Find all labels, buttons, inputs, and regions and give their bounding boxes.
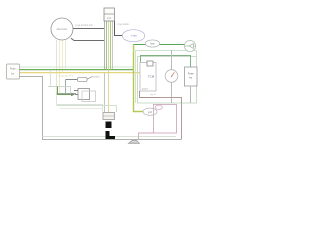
clip ground lug (129, 141, 140, 144)
svg-text:TCM: TCM (148, 75, 155, 79)
svg-text:sig rtn: sig rtn (150, 93, 157, 96)
svg-text:Fuse: Fuse (188, 71, 194, 75)
wire: pale drop x50 (50, 70, 52, 87)
connector C1 (104, 8, 114, 21)
wire: pale green y105 run (57, 106, 117, 113)
svg-text:fuse: fuse (150, 43, 155, 46)
svg-text:2 ga cable: 2 ga cable (117, 22, 130, 26)
svg-text:alternator: alternator (57, 27, 68, 31)
wire: alternator vertical leads down (57, 40, 103, 112)
wire: right riser x181 (160, 98, 182, 140)
svg-text:+ batt: + batt (130, 35, 136, 38)
wire: alternator output top to ribbon (73, 28, 105, 30)
svg-text:gnd st: gnd st (142, 88, 148, 91)
switch S1 (66, 76, 101, 82)
svg-text:10 ga ign feed: 10 ga ign feed (58, 75, 74, 78)
alternator A1 (51, 18, 73, 40)
wire: pale green y50 to right edge (133, 51, 197, 104)
svg-text:4 ga fusible link: 4 ga fusible link (75, 23, 94, 27)
wire: alternator output lower to ribbon (71, 38, 104, 40)
pink sense loop (139, 105, 177, 140)
fuse box FB1 (185, 67, 198, 86)
wire: green TCM top feed across to fuse box (141, 56, 191, 68)
relay K1 (74, 89, 96, 102)
wire: yellow bus y72.5 panel to TCM (19, 72, 140, 74)
gauge M1 (165, 70, 178, 83)
wire: switch drop (65, 80, 67, 94)
lamp L1 (184, 40, 195, 51)
wire: green arrow feed to relay (58, 87, 76, 97)
svg-text:cn1: cn1 (107, 17, 112, 20)
wire: pale companion vertical x135 (135, 50, 137, 103)
wire: yellow-green vertical x133 down to gnd ellipse (134, 44, 144, 112)
wire: pale y86 link (48, 87, 71, 94)
wire: fuse box bottom stub (190, 86, 192, 103)
wire: panel ground run to right (19, 77, 181, 140)
wire: connector ribbon verticals (105, 21, 113, 112)
svg-text:switch: switch (93, 76, 100, 79)
svg-text:gnd: gnd (148, 111, 153, 114)
wire: pale green bottom run (43, 136, 177, 138)
node +batt (122, 30, 144, 42)
svg-text:Fuse: Fuse (10, 67, 16, 70)
wire: green bus y70 panel to x133 (19, 69, 134, 71)
wire: rosy y97 from TCM (140, 91, 161, 98)
enclosure box (dash area) (138, 57, 197, 104)
ground block G1 (103, 113, 115, 140)
wire: y93 link (57, 93, 77, 95)
fuse F1 (145, 40, 159, 47)
node gnd ellipse (143, 108, 157, 115)
wire: pale green bus y67 (19, 66, 133, 68)
wire: connector to +batt ellipse (115, 21, 123, 36)
wire: faint y108 run (60, 108, 102, 110)
panel P1 (7, 64, 20, 79)
wire: gauge vertical (171, 50, 173, 103)
TCM U1 (140, 61, 156, 91)
wire: green feed to lamp through fuse (133, 44, 185, 46)
